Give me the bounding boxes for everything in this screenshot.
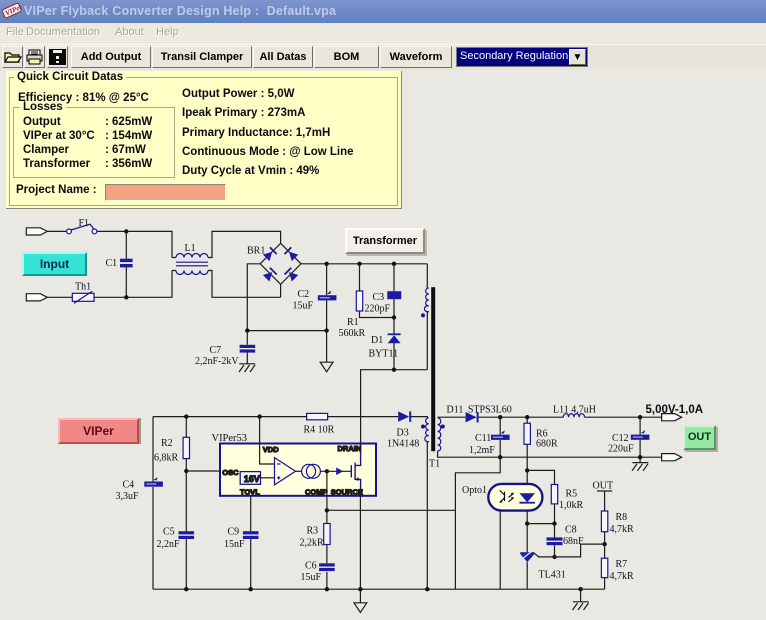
node bottom SOURCE xyxy=(358,587,362,591)
phase dot auxiliary xyxy=(421,425,425,429)
wire bottom to L1 xyxy=(126,271,172,298)
phase dot primary xyxy=(421,313,425,317)
wire R8 to R7 xyxy=(604,532,606,559)
svg-text:5,00V-1,0A: 5,00V-1,0A xyxy=(646,404,704,416)
wire OSC to IC xyxy=(186,470,220,472)
wire secondary top xyxy=(438,416,564,418)
capacitor C7 xyxy=(240,345,256,353)
fuse F1 xyxy=(67,224,97,234)
svg-text:TOVL: TOVL xyxy=(240,487,260,496)
output terminal top xyxy=(662,414,682,421)
svg-text:4,7kR: 4,7kR xyxy=(610,524,635,535)
wire R7 bottom xyxy=(604,578,606,590)
wire L1 top exit xyxy=(172,231,281,257)
node C2 xyxy=(324,262,328,266)
wire C11 xyxy=(499,417,501,457)
wire auxiliary return xyxy=(427,442,429,590)
arrow comp xyxy=(336,468,343,476)
wire current source to mosfet xyxy=(321,470,352,472)
negative rail xyxy=(247,330,326,332)
optocoupler Opto1 body xyxy=(488,484,542,511)
wire COMP to opto xyxy=(327,509,456,511)
capacitor C9 xyxy=(243,531,259,539)
svg-text:2,2nF-2kV: 2,2nF-2kV xyxy=(195,356,239,367)
comparator minus xyxy=(277,463,280,465)
node sense OUT label terminal xyxy=(597,491,612,511)
input terminal bottom xyxy=(26,294,47,301)
node bottom R2 xyxy=(184,587,188,591)
svg-text:2,2nF: 2,2nF xyxy=(157,539,181,550)
op-amp U1 VIPer53 IC box xyxy=(220,444,376,496)
wire bridge bottom drop xyxy=(280,284,282,297)
svg-text:D1: D1 xyxy=(371,335,383,346)
wire opto emitter xyxy=(499,511,501,590)
wire VDD pin xyxy=(260,417,275,464)
svg-text:220uF: 220uF xyxy=(608,444,634,455)
transistor mosfet xyxy=(351,444,360,496)
svg-text:F1: F1 xyxy=(79,218,90,229)
wire primary bottom xyxy=(427,312,429,370)
node C8 bottom xyxy=(552,555,556,559)
wire R5 bottom xyxy=(554,504,556,524)
svg-text:3,3uF: 3,3uF xyxy=(116,491,140,502)
svg-text:OSC: OSC xyxy=(222,468,239,477)
svg-text:TL431: TL431 xyxy=(539,570,566,581)
zener TL431 xyxy=(520,552,534,562)
node bottom ground secondary xyxy=(578,587,582,591)
svg-text:SOURCE: SOURCE xyxy=(331,487,363,496)
svg-text:BYT11: BYT11 xyxy=(369,349,399,360)
svg-text:6,8kR: 6,8kR xyxy=(154,453,179,464)
capacitor C5 xyxy=(179,531,195,539)
diode BR1 bottom-left xyxy=(263,267,278,282)
svg-text:L1: L1 xyxy=(185,243,196,254)
wire R6 xyxy=(526,417,528,470)
svg-text:D11 STPS3L60: D11 STPS3L60 xyxy=(447,405,512,416)
wire VDD rail xyxy=(153,417,427,418)
svg-text:C7: C7 xyxy=(210,345,222,356)
diode BR1 top-left xyxy=(263,247,278,262)
capacitor C3 xyxy=(387,291,401,299)
resistor R3 xyxy=(324,524,330,545)
input terminal top xyxy=(26,228,47,235)
svg-text:OUT: OUT xyxy=(593,481,614,492)
svg-text:R5: R5 xyxy=(566,489,578,500)
node C7 xyxy=(245,328,249,332)
svg-text:R7: R7 xyxy=(616,559,628,570)
svg-text:C3: C3 xyxy=(373,292,385,303)
TL431 ref diagonal xyxy=(533,553,539,557)
bottom rail xyxy=(153,588,605,590)
svg-text:R2: R2 xyxy=(161,438,173,449)
node C2 bottom xyxy=(324,328,328,332)
transformer T1 secondary winding xyxy=(438,418,441,451)
node C12 top xyxy=(638,415,642,419)
earth ground C7 xyxy=(239,364,255,372)
diode D1 xyxy=(388,318,401,370)
wire bridge left vertex to negative rail xyxy=(247,264,260,331)
opto LED xyxy=(519,493,535,503)
svg-text:L11 4,7uH: L11 4,7uH xyxy=(553,405,596,416)
wire C12 earth stub xyxy=(639,457,641,462)
diode BR1 bottom-right xyxy=(284,267,299,282)
capacitor C11 polarized xyxy=(491,430,510,440)
resistor R4 xyxy=(307,413,328,419)
wire TOVL pin C9 branch xyxy=(250,496,252,589)
earth ground C12 xyxy=(632,463,648,471)
wire L11 to output xyxy=(585,416,662,418)
svg-text:C2: C2 xyxy=(298,289,310,300)
wire SOURCE pin xyxy=(359,496,361,589)
wire cathode node to R5 bottom xyxy=(527,523,554,525)
comparator plus xyxy=(277,476,280,479)
svg-text:Th1: Th1 xyxy=(75,282,91,293)
svg-text:R1: R1 xyxy=(347,317,359,328)
node bottom C9 xyxy=(249,587,253,591)
wire COMP pin xyxy=(326,471,328,523)
wire C12 xyxy=(639,417,641,457)
wire R2 branch xyxy=(185,417,187,590)
ground triangle source xyxy=(354,603,367,613)
svg-text:T1: T1 xyxy=(429,459,440,470)
capacitor C8 xyxy=(547,537,563,545)
transformer T1 core xyxy=(431,287,435,451)
resistor R5 xyxy=(551,485,557,504)
svg-text:Opto1: Opto1 xyxy=(462,485,487,496)
node OUT divider xyxy=(602,542,606,546)
node R6 opto anode xyxy=(525,468,529,472)
svg-text:VDD: VDD xyxy=(263,445,279,454)
resistor R1 xyxy=(356,291,362,311)
wire bridge right vertex / DC+ rail xyxy=(301,263,427,265)
node COMP below IC xyxy=(325,508,329,512)
node OSC xyxy=(184,469,188,473)
wire TL431 ref to divider xyxy=(538,544,605,557)
svg-text:C4: C4 xyxy=(123,480,135,491)
node drain D1 bottom xyxy=(392,368,396,372)
inductor L1 common mode choke xyxy=(176,254,208,275)
svg-text:BR1: BR1 xyxy=(247,246,265,257)
diode BR1 top-right xyxy=(284,247,299,262)
node R6 top xyxy=(525,415,529,419)
svg-text:C12: C12 xyxy=(612,433,629,444)
wire C2 vertical xyxy=(326,264,328,331)
wire top rail to F1 xyxy=(47,230,66,232)
node C1 bottom xyxy=(124,295,128,299)
wire bottom rail to Th1 xyxy=(47,296,72,298)
opto phototransistor xyxy=(499,490,513,502)
comparator triangle xyxy=(275,458,296,485)
node bottom aux xyxy=(425,587,429,591)
node R5 bottom xyxy=(552,521,556,525)
transformer T1 primary winding xyxy=(424,288,428,312)
wire primary top xyxy=(426,264,428,288)
wire C1 vertical xyxy=(125,231,127,297)
svg-text:2,2kR: 2,2kR xyxy=(300,538,325,549)
capacitor C2 polarized xyxy=(318,291,337,301)
node C11 top xyxy=(498,415,502,419)
resistor R8 xyxy=(601,511,607,532)
node bottom C6 xyxy=(325,587,329,591)
wire 16V to comparator xyxy=(261,477,275,479)
wire C7 xyxy=(246,331,248,364)
quick circuit datas panel xyxy=(6,71,402,209)
capacitor C1 xyxy=(120,259,133,268)
node C1 top xyxy=(124,229,128,233)
wire C2 to ground xyxy=(326,331,328,362)
toolbar xyxy=(0,45,766,70)
node C3 top xyxy=(392,262,396,266)
svg-text:VIPer53: VIPer53 xyxy=(212,433,248,444)
wire TL431 cathode xyxy=(526,524,528,553)
resistor R2 xyxy=(183,437,189,458)
title bar xyxy=(0,0,766,23)
current source xyxy=(302,464,321,478)
wire TL431 anode xyxy=(526,562,528,589)
node C3 bottom xyxy=(392,315,396,319)
TL431 highlight slash xyxy=(520,547,537,561)
svg-text:COMP: COMP xyxy=(305,487,328,496)
node VDD rail VDD pin xyxy=(257,414,261,418)
wire R1 xyxy=(360,264,395,318)
ground triangle C2 xyxy=(320,362,333,372)
wire secondary bottom xyxy=(438,451,662,457)
svg-text:DRAIN: DRAIN xyxy=(338,444,362,453)
wire opto LED anode xyxy=(526,470,528,484)
node C11 bottom xyxy=(498,455,502,459)
earth ground secondary xyxy=(573,602,589,610)
svg-text:4,7kR: 4,7kR xyxy=(610,571,635,582)
node LED cathode xyxy=(525,521,529,525)
transformer T1 auxiliary winding xyxy=(425,418,429,442)
node R1 top xyxy=(357,262,361,266)
svg-text:1,0kR: 1,0kR xyxy=(559,500,584,511)
svg-text:C11: C11 xyxy=(475,433,491,444)
wire L1 bottom exit xyxy=(172,271,281,298)
wire opto LED cathode xyxy=(526,511,528,524)
svg-text:15uF: 15uF xyxy=(301,572,322,583)
wire opto anode node to R5 xyxy=(527,470,554,484)
resistor R7 xyxy=(601,558,607,578)
wire C8 top xyxy=(554,524,556,538)
svg-text:1N4148: 1N4148 xyxy=(387,439,419,450)
svg-text:C1: C1 xyxy=(106,258,118,269)
svg-text:1,2mF: 1,2mF xyxy=(469,445,495,456)
svg-text:560kR: 560kR xyxy=(339,328,366,339)
svg-text:R4 10R: R4 10R xyxy=(304,425,335,436)
wire C8 bottom xyxy=(554,545,556,557)
wire source ground stub xyxy=(359,589,361,602)
node VDD rail R2 xyxy=(184,414,188,418)
wire drain node xyxy=(361,370,428,444)
diode D3 xyxy=(398,411,411,421)
svg-text:C6: C6 xyxy=(305,561,317,572)
wire Th1 to C1 bottom node xyxy=(94,296,126,298)
capacitor C12 polarized xyxy=(631,430,650,440)
svg-text:15nF: 15nF xyxy=(224,539,245,550)
capacitor C6 xyxy=(319,563,335,571)
node C12 bottom xyxy=(638,455,642,459)
wire left vertical C4 branch xyxy=(152,417,154,590)
svg-text:15uF: 15uF xyxy=(293,301,314,312)
svg-text:C8: C8 xyxy=(565,525,577,536)
svg-text:16V: 16V xyxy=(244,474,260,484)
svg-text:68nF: 68nF xyxy=(563,536,584,547)
regulator 16V box xyxy=(240,472,260,485)
wire opto collector to rail xyxy=(455,457,500,589)
wire earth stub secondary xyxy=(580,589,582,602)
output terminal bottom xyxy=(662,454,682,461)
wire F1 to C1 node xyxy=(97,230,126,232)
wire C1 node to L1 xyxy=(126,231,172,257)
schematic buttons xyxy=(22,252,87,276)
svg-text:220pF: 220pF xyxy=(365,304,391,315)
thermistor Th1 xyxy=(72,291,94,303)
svg-text:R8: R8 xyxy=(616,512,628,523)
wire R3 to C6 xyxy=(326,545,328,590)
node COMP internal xyxy=(325,469,329,473)
phase dot secondary xyxy=(441,425,445,429)
menu bar xyxy=(0,23,766,45)
svg-text:680R: 680R xyxy=(536,439,558,450)
wire C3 xyxy=(393,264,395,318)
capacitor C4 polarized xyxy=(144,477,163,487)
resistor R6 xyxy=(524,423,530,444)
svg-text:C5: C5 xyxy=(163,527,175,538)
bridge rectifier BR1 xyxy=(260,243,301,284)
inductor L11 xyxy=(563,414,584,418)
svg-text:C9: C9 xyxy=(228,527,240,538)
wire comparator to current source xyxy=(296,470,302,472)
svg-text:D3: D3 xyxy=(397,428,409,439)
svg-text:R3: R3 xyxy=(307,526,319,537)
diode D11 xyxy=(466,412,479,422)
